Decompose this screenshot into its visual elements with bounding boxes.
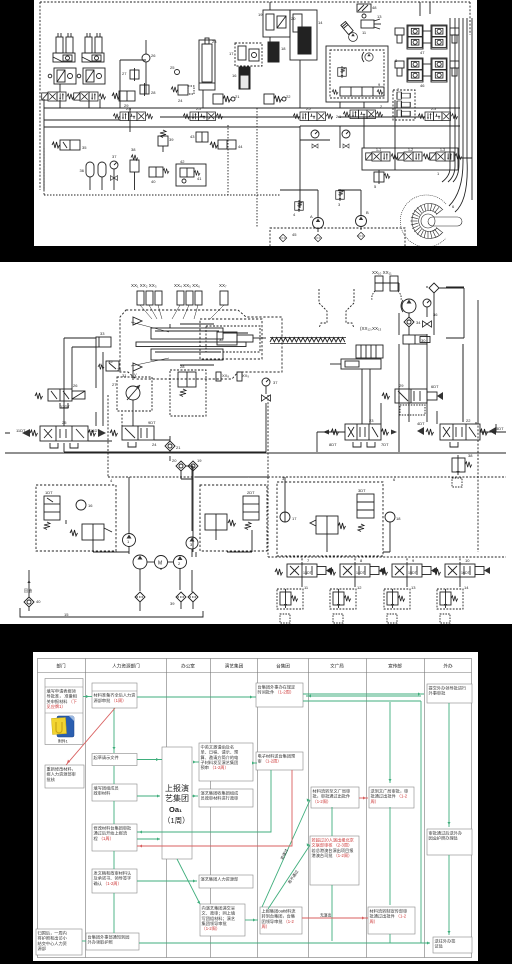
return check 40 [24,570,41,607]
svg-text:17: 17 [292,516,297,521]
limit triangles [133,317,142,371]
svg-text:47: 47 [420,50,425,55]
main wires p2 [5,344,506,611]
svg-text:16DT: 16DT [461,571,471,575]
diamond filter top [429,283,439,293]
valve 34 row [42,92,74,101]
valve 24 9DT [110,420,157,447]
valve 7 13DT [275,558,332,577]
svg-text:批核: 批核 [47,776,56,783]
svg-text:程 （1周）: 程 （1周） [94,835,114,842]
flow control 27 [112,371,152,414]
box: return passport [36,929,82,955]
box: sign confirmation [92,869,137,893]
valve 21 [213,94,240,104]
component 30 [403,335,430,344]
box: wenguangju approval [311,787,359,808]
svg-text:1DT: 1DT [45,490,53,495]
svg-text:艺集团: 艺集团 [165,793,189,803]
valve 43 [190,132,208,142]
box: revise materials [45,765,84,788]
accumulator 18 (dark) [268,42,286,62]
cylinder cyl group [82,33,104,62]
svg-text:21: 21 [176,445,181,450]
valve 40 [149,167,169,184]
svg-text:41: 41 [197,176,202,181]
box: yanyi collect review [199,789,253,807]
pump 33 [401,299,416,313]
svg-text:V: V [134,372,137,377]
svg-text:3: 3 [338,202,341,207]
svg-text:附件1: 附件1 [58,739,68,744]
telescopic cylinder 23 [199,38,217,90]
svg-text:32: 32 [219,337,224,342]
checks 20 19 [172,458,202,471]
svg-text:26: 26 [151,53,156,58]
svg-text:演艺集团人力资源部: 演艺集团人力资源部 [201,875,239,882]
valve row 2-5 [183,112,223,121]
svg-text:XX₉: XX₉ [242,373,249,378]
shutoff 36 [423,312,439,327]
feed cylinder bottom [136,342,246,365]
power unit box 9/10 [326,46,388,102]
sensor labels XX1-XX3 [131,270,392,331]
right supply lines [375,283,478,452]
svg-text:27: 27 [122,71,127,76]
valve row 2-3 [418,112,458,121]
svg-text:39: 39 [169,137,174,142]
sensor fan lines [140,305,224,319]
box: oa to taiji [260,907,302,934]
relief 11 [277,585,309,623]
svg-text:43: 43 [190,134,195,139]
box: taiji notify pickup [86,933,139,950]
pump 1 [123,534,136,547]
svg-text:42: 42 [180,159,185,164]
box: xuanchuanbu outfile [368,907,415,934]
box: submit to yanyi group [200,904,245,936]
valve block 32/33 [48,68,76,84]
svg-text:1: 1 [437,171,440,176]
box: to waiban visa [433,937,472,953]
svg-text:35: 35 [108,359,113,364]
svg-text:44: 44 [238,144,243,149]
svg-text:13: 13 [411,585,416,590]
gauge 37 [110,154,118,190]
svg-text:25: 25 [62,420,67,425]
gauges above pumps [311,130,350,148]
svg-text:宣传部: 宣传部 [388,663,402,670]
cylinder stack 7 [393,87,415,120]
svg-text:起草请示文件: 起草请示文件 [94,754,119,761]
filter diamonds below pumps [279,232,365,242]
motor M [147,556,173,569]
svg-text:16: 16 [232,73,237,78]
valve 25 (3-pos) [16,420,106,448]
relief 12 [330,585,362,623]
valve row 2-4 [113,112,153,121]
svg-text:办公室: 办公室 [181,663,195,670]
svg-text:37: 37 [273,380,278,385]
valve 27 [122,68,139,81]
valve K35 [98,361,119,371]
check 18 [385,512,401,522]
rotation cylinder 32 [206,326,266,352]
funnel dashed [319,289,354,328]
svg-text:40: 40 [151,179,156,184]
valve 10 16DT [433,558,490,577]
svg-text:7: 7 [397,87,400,92]
pump B [356,210,370,227]
valve 9 15DT [380,558,437,577]
svg-text:文广局: 文广局 [330,663,344,670]
box: invitation email materials [199,743,253,781]
valve 23 [323,418,397,447]
schematic dashed border [40,2,470,190]
wire bundle to rotary [420,2,472,212]
valve 22 [264,94,291,104]
svg-text:外办: 外办 [443,663,453,670]
component 48 [357,4,377,18]
svg-text:（1周）: （1周） [163,816,190,825]
check diamond 34 [404,317,421,327]
svg-text:3DT: 3DT [358,488,366,493]
svg-text:Oa₁: Oa₁ [169,805,182,814]
svg-text:13DT: 13DT [303,571,313,575]
main wires [44,37,472,232]
box: fill application form (dept) [45,679,83,745]
box: political review materials [92,784,137,801]
component 13 [361,14,382,29]
svg-text:9: 9 [378,82,381,87]
svg-text:20: 20 [172,458,177,463]
svg-text:2: 2 [178,561,181,566]
svg-text:46: 46 [420,83,425,88]
svg-text:6: 6 [393,477,396,482]
bottom dotted lines [44,108,280,228]
svg-text:21: 21 [235,94,240,99]
svg-text:28: 28 [180,364,185,369]
svg-text:18: 18 [396,516,401,521]
svg-text:40: 40 [36,599,41,604]
box 41 [176,159,206,186]
svg-text:人力资源部门: 人力资源部门 [112,663,140,670]
svg-text:1-2: 1-2 [408,148,413,152]
svg-text:XX₁ XX₂ XX₃: XX₁ XX₂ XX₃ [131,283,157,288]
cylinder cyl group 30/31 [53,33,75,62]
swimlane table frame [38,659,472,958]
relief 14 [437,585,469,623]
pilot box 5/6 (3DT) [277,476,396,556]
relief 4 [293,200,303,217]
check valve 26 [142,40,156,75]
svg-text:9DT: 9DT [148,420,156,425]
svg-text:外办领取护照: 外办领取护照 [88,939,113,946]
svg-text:13: 13 [377,14,382,19]
valve 44 [210,140,243,149]
svg-text:7DT: 7DT [381,442,389,447]
svg-text:14DT: 14DT [90,428,100,433]
svg-text:20: 20 [291,16,296,21]
svg-text:14: 14 [318,20,323,25]
svg-text:45: 45 [292,232,297,237]
svg-text:19: 19 [197,458,202,463]
left wires to valves [5,338,96,433]
svg-text:演艺集团: 演艺集团 [225,663,244,670]
svg-text:28: 28 [151,90,156,95]
machine outline (dashed) [120,310,282,379]
svg-text:24: 24 [178,98,183,103]
pilot box 4 (1DT) [36,478,116,551]
svg-text:5DT: 5DT [496,426,504,431]
box 17 with cylinders [229,43,262,66]
valve 29 [112,91,135,108]
green rotated labels [279,848,299,885]
box: yanyi HR [199,875,253,888]
svg-text:26: 26 [73,383,78,388]
svg-text:XX₄ XX₅ XX₆: XX₄ XX₅ XX₆ [174,283,200,288]
pump 3 [186,537,198,549]
svg-text:XX₈: XX₈ [222,373,229,378]
svg-text:38: 38 [131,147,136,152]
svg-text:17: 17 [229,51,234,56]
svg-text:见应牌1）: 见应牌1） [47,703,66,710]
box: over 20 people rule [310,836,359,885]
svg-text:18: 18 [281,46,286,51]
wire bus lines [44,2,460,190]
box: office report (tall) [162,747,192,859]
valve 29 6DT [382,383,443,415]
svg-text:B: B [366,210,369,215]
svg-text:员政审材料进行政审: 员政审材料进行政审 [201,795,239,802]
pump 11 [349,30,367,41]
svg-text:8DT: 8DT [329,442,337,447]
box: HR review (1 wk) [92,683,137,708]
svg-text:39: 39 [170,601,175,606]
green connectors [82,693,451,945]
svg-text:4DT: 4DT [417,421,425,426]
pump left [133,555,147,569]
pump 2 [174,556,187,569]
bottom dashed box 45 [270,228,405,248]
svg-text:1-1: 1-1 [376,148,381,152]
svg-text:36: 36 [80,168,85,173]
valve 35 [52,140,87,150]
svg-text:14DT: 14DT [356,571,366,575]
svg-text:1: 1 [127,539,130,544]
svg-text:政审材料: 政审材料 [94,790,112,797]
svg-text:2-4: 2-4 [126,107,131,111]
svg-text:2-2: 2-2 [306,107,311,111]
pilot valve 28 [170,364,206,416]
pump A [310,214,324,229]
svg-text:38: 38 [468,453,473,458]
gauge 37 [262,378,279,452]
sensor bars group2 [177,291,202,305]
chuck assembly [330,345,383,369]
svg-text:22: 22 [466,418,471,423]
svg-text:25: 25 [170,65,175,70]
svg-text:A: A [310,214,313,219]
svg-text:9: 9 [412,558,415,563]
valve bank 1 (1-1 1-2 1-3) [362,148,462,176]
gauge top [423,299,431,307]
svg-text:外事审批: 外事审批 [429,690,447,697]
svg-text:15DT: 15DT [408,571,418,575]
svg-text:6DT: 6DT [431,384,439,389]
svg-text:源部: 源部 [38,945,46,952]
svg-text:27: 27 [112,382,117,387]
red connectors [66,708,368,920]
clamp group 47 [395,25,459,49]
box: draft document [92,754,137,766]
svg-text:1-3: 1-3 [440,148,445,152]
filters [135,592,198,606]
svg-text:2-3: 2-3 [431,107,436,111]
svg-text:37: 37 [112,154,117,159]
svg-text:29: 29 [399,383,404,388]
svg-text:回油: 回油 [24,587,32,593]
valve 28 [140,83,156,96]
svg-text:11: 11 [362,30,367,35]
svg-text:7: 7 [307,558,310,563]
valve 26 [35,383,85,409]
svg-text:时间批件 （1-2周）: 时间批件 （1-2周） [258,689,295,696]
svg-text:4: 4 [293,212,296,217]
box 20 with dark cylinder 15 [290,10,323,60]
box: submit to waiban leaders [427,684,472,703]
svg-text:港澳台司批 （1-2周）: 港澳台司批 （1-2周） [312,852,353,859]
relief 13 [384,585,416,623]
tank line 15 [20,611,203,617]
svg-text:30: 30 [421,338,426,343]
svg-text:8: 8 [360,558,363,563]
svg-text:16: 16 [88,503,93,508]
valve 24 [171,85,194,103]
check 25 [170,65,180,75]
svg-text:33: 33 [100,331,105,336]
block 33 on machine left [96,331,111,347]
box: after approval to passport office [427,829,472,855]
svg-text:审 （1-2周）: 审 （1-2周） [258,758,282,765]
valve 5 [374,170,390,189]
box: e-materials to taiji [256,752,303,770]
svg-text:2-5: 2-5 [196,107,201,111]
svg-text:预审 （1-2周）: 预审 （1-2周） [201,764,229,771]
drill rod coil [270,338,346,344]
svg-text:部门: 部门 [56,663,66,670]
svg-text:35: 35 [82,145,87,150]
clamp group 46 [395,58,459,82]
svg-text:22: 22 [286,94,291,99]
svg-text:14: 14 [464,585,469,590]
check 21 [165,441,181,451]
svg-text:(XX₁₂,XX₁₃: (XX₁₂,XX₁₃ [360,326,382,331]
valve 38 [130,147,139,190]
svg-text:34: 34 [416,320,421,325]
svg-text:10: 10 [465,558,470,563]
box 19 [258,10,290,37]
rotary valve 6 [400,195,462,247]
valve row 2-2 [293,112,333,121]
lane headers [56,663,453,670]
accumulator 16 (dark) [232,67,250,89]
svg-text:48: 48 [372,5,377,10]
svg-text:源部审批 （1周）: 源部审批 （1周） [94,697,127,704]
svg-text:XX₇: XX₇ [219,283,227,288]
svg-text:台集团: 台集团 [276,663,290,670]
attachment document icon [51,716,74,744]
feed cylinder top [131,322,248,366]
svg-text:XX₁₀ XX₁₁: XX₁₀ XX₁₁ [372,270,392,275]
svg-text:8: 8 [395,58,398,63]
svg-text:11: 11 [304,585,309,590]
pilot box 2DT [200,485,267,551]
box: taiji approval [256,683,303,707]
svg-text:无演出: 无演出 [320,913,332,918]
box: xuanchuanbu approval top [369,787,414,808]
accumulator 36 pair [80,162,106,190]
valve 8 14DT [328,558,385,577]
valve 39 [158,130,174,152]
valve 22 [417,418,504,447]
svg-text:园会护照办理处: 园会护照办理处 [429,835,459,842]
box: revise materials taiji approve [92,824,137,851]
sensor bars XX8 XX9 [216,372,242,381]
svg-text:若通过: 若通过 [279,848,289,861]
svg-text:5: 5 [374,184,377,189]
dashed manifold lines [108,395,506,564]
svg-text:15: 15 [64,612,69,617]
sensor bar XX7 [220,291,228,305]
svg-text:23: 23 [212,39,217,44]
svg-text:6: 6 [452,204,455,209]
svg-text:上报演: 上报演 [165,783,189,793]
relief 38 [452,453,473,487]
sensor bars group1 [137,291,162,305]
sensor labels XX8 XX9 [222,373,249,378]
pump 12 [341,21,353,34]
svg-text:4: 4 [110,478,113,483]
relief 3 [336,189,345,207]
sensor bars XX10 XX11 [372,276,401,300]
labels K 35 [99,359,127,378]
svg-text:2DT: 2DT [247,490,255,495]
svg-text:12: 12 [357,585,362,590]
svg-text:证处: 证处 [435,943,444,950]
svg-text:19: 19 [258,12,263,17]
svg-text:24: 24 [152,442,157,447]
svg-text:确认 （1-2周）: 确认 （1-2周） [94,880,122,887]
svg-text:M: M [158,561,162,567]
valve block 32/33 [77,68,105,84]
valve 2 [336,104,383,119]
